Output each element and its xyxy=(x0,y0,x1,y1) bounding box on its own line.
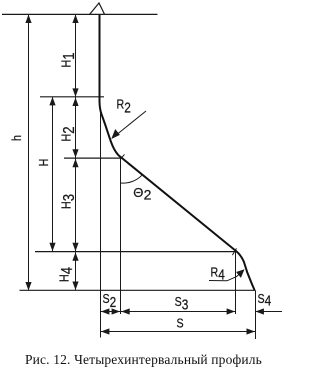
profile outline (thick) xyxy=(100,15,255,291)
baseline xyxy=(20,289,256,291)
dimension line S3 xyxy=(121,311,236,313)
dimension line H xyxy=(52,97,54,252)
extension line H3/H4 boundary xyxy=(35,251,236,253)
dimension line S xyxy=(101,331,256,333)
extension line H2/H3 boundary xyxy=(64,157,123,159)
arrow H4 top (up) xyxy=(72,252,78,260)
extension line x=120 xyxy=(120,158,122,314)
arrow S right xyxy=(247,328,256,334)
tangent tick at top of slope xyxy=(120,154,124,159)
arrow H2 top (up) xyxy=(72,98,78,107)
svg-text:H: H xyxy=(36,159,51,167)
arrow H1 bottom (down) xyxy=(72,88,78,97)
extension line x=235 xyxy=(235,252,237,314)
arrow H4 bottom (down) xyxy=(72,282,78,291)
svg-text:R2: R2 xyxy=(117,96,131,115)
arrow S4 (outside, pointing left) xyxy=(255,308,264,314)
arrow R2 leader (points down-left) xyxy=(111,129,120,139)
arrow S2 left xyxy=(101,308,110,314)
svg-text:h: h xyxy=(9,135,24,141)
extension line x=254 xyxy=(255,291,257,340)
svg-text:R4: R4 xyxy=(211,264,225,282)
leader line R2 xyxy=(113,111,147,138)
arrow S2 right xyxy=(112,308,121,314)
svg-text:S3: S3 xyxy=(175,294,189,313)
arrow H3 top (up) xyxy=(72,159,78,168)
dimension line S4 (outside tail) xyxy=(255,311,282,313)
extension line x=100 xyxy=(100,112,102,338)
arrow S3 right xyxy=(227,308,236,314)
svg-text:H4: H4 xyxy=(57,267,77,282)
arrow H3 bottom (down) xyxy=(72,243,78,252)
svg-text:S4: S4 xyxy=(258,291,272,309)
figure caption xyxy=(25,352,262,367)
arrow S left xyxy=(101,328,110,334)
leader line R4 with underline xyxy=(209,270,244,281)
arrow H1 top (up) xyxy=(72,15,78,24)
arrow h top (up) xyxy=(25,15,31,24)
ground line (top datum) xyxy=(2,13,158,15)
arrow H2 bottom (down) xyxy=(72,149,78,158)
arrow h bottom (down) xyxy=(25,282,31,291)
extension line H1/H2 boundary xyxy=(40,96,104,98)
dimension line S2 xyxy=(101,311,121,313)
angle arc theta2 xyxy=(121,175,142,183)
dimension line h xyxy=(28,15,30,291)
arrow H top (up) xyxy=(49,97,55,106)
svg-text:Θ2: Θ2 xyxy=(133,185,151,203)
arrow R4 leader (points up-right) xyxy=(236,269,244,278)
weld bead triangle on ground line xyxy=(90,3,105,15)
svg-text:Рис. 12. Четырехинтервальный: Рис. 12. Четырехинтервальный профиль xyxy=(25,352,262,367)
arrow H bottom (down) xyxy=(49,243,55,252)
arrow S3 left xyxy=(121,308,130,314)
svg-text:S2: S2 xyxy=(103,291,117,310)
dimension line H1-H4 xyxy=(75,15,77,290)
svg-text:S: S xyxy=(177,315,184,330)
tangent tick at bottom of slope xyxy=(232,248,236,255)
